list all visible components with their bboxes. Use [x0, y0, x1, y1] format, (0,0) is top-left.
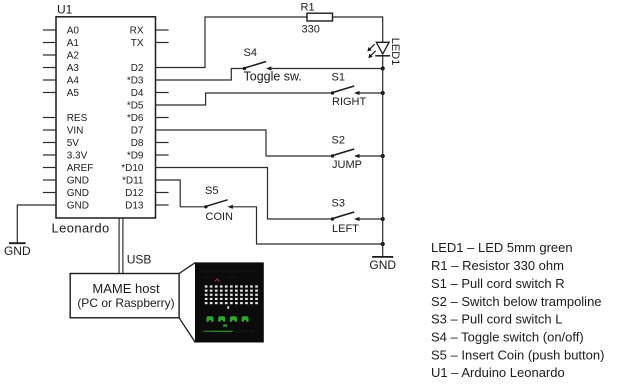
svg-text:A4: A4	[67, 76, 80, 87]
svg-text:0000: 0000	[226, 275, 236, 280]
pin A5 stub	[44, 92, 57, 94]
svg-text:COIN: COIN	[206, 211, 234, 223]
svg-text:A0: A0	[67, 26, 80, 37]
pin VIN stub	[44, 129, 57, 131]
pin 5V stub	[44, 142, 57, 144]
pin A2 stub	[44, 54, 57, 56]
wire LED cathode to node A	[382, 56, 384, 69]
pin A4 stub	[44, 79, 57, 81]
pin A0 stub	[44, 29, 57, 31]
pin 3.3V stub	[44, 154, 57, 156]
MAME host box	[70, 274, 179, 318]
game screen red ufo mark	[215, 279, 220, 281]
svg-text:TX: TX	[131, 38, 144, 49]
svg-text:GND: GND	[67, 176, 89, 187]
svg-text:S1: S1	[332, 71, 345, 83]
svg-text:GND: GND	[67, 201, 89, 212]
svg-text:A5: A5	[67, 88, 80, 99]
svg-text:330: 330	[302, 24, 320, 36]
game screen bunker 1	[207, 316, 214, 322]
svg-text:D7: D7	[131, 126, 144, 137]
switch S2	[331, 149, 360, 158]
switch S4 (toggle)	[243, 62, 272, 71]
svg-text:*D10: *D10	[121, 163, 144, 174]
svg-text:AREF: AREF	[67, 163, 94, 174]
wire GND3 pin to ground	[17, 205, 56, 243]
svg-text:A2: A2	[67, 51, 80, 62]
svg-text:S3: S3	[332, 197, 345, 209]
callout wedge bottom line	[179, 318, 195, 342]
wire top rail left of R1	[205, 16, 307, 18]
game screen bunker 4	[242, 316, 249, 322]
junction S2/bus	[381, 154, 385, 158]
svg-text:D2: D2	[131, 63, 144, 74]
wire top rail right of R1 down to LED anode	[333, 17, 383, 42]
svg-text:S4 – Toggle switch (on/off): S4 – Toggle switch (on/off)	[431, 330, 584, 345]
svg-text:RES: RES	[67, 113, 88, 124]
wire S5 to bus bottom	[233, 207, 383, 244]
pin A3 stub	[44, 67, 57, 69]
pin GND2 stub	[44, 192, 57, 194]
switch S5	[204, 200, 233, 209]
LED1 cathode bar	[376, 55, 389, 57]
pin TX stub	[156, 42, 169, 44]
svg-text:S4: S4	[244, 47, 257, 59]
svg-text:Toggle sw.: Toggle sw.	[244, 69, 302, 83]
wire D11 to switch S5	[156, 180, 206, 207]
junction S3/bus	[381, 217, 385, 221]
pin D13 stub	[156, 204, 169, 206]
svg-text:U1 – Arduino Leonardo: U1 – Arduino Leonardo	[431, 365, 565, 380]
svg-text:GND: GND	[369, 258, 396, 272]
game screen player cannon	[223, 325, 227, 327]
svg-text:D13: D13	[125, 201, 144, 212]
pin GND1 stub	[44, 179, 57, 181]
svg-text:S3 – Pull cord switch L: S3 – Pull cord switch L	[431, 312, 563, 327]
svg-text:S2: S2	[332, 134, 345, 146]
svg-text:3 010: 3 010	[201, 329, 214, 334]
switch S1	[331, 86, 360, 95]
svg-text:D8: D8	[131, 138, 144, 149]
resistor R1	[307, 13, 333, 21]
svg-text:3.3V: 3.3V	[67, 151, 88, 162]
svg-text:*D5: *D5	[127, 101, 144, 112]
svg-text:*D9: *D9	[127, 151, 144, 162]
game screen bunker 3	[230, 316, 237, 322]
wire S2 to bus	[360, 155, 383, 157]
wire D2 to top rail	[156, 17, 206, 68]
svg-text:S1 – Pull cord switch R: S1 – Pull cord switch R	[431, 276, 565, 291]
svg-text:RX: RX	[130, 26, 144, 37]
svg-text:U1: U1	[57, 2, 73, 16]
junction node A (LED cathode / S4)	[381, 66, 385, 70]
wire S3 to bus	[360, 218, 383, 220]
svg-text:A1: A1	[67, 38, 80, 49]
svg-text:S2 – Switch below trampoline: S2 – Switch below trampoline	[431, 294, 602, 309]
callout wedge top line	[179, 263, 195, 274]
LED LED1 triangle	[376, 42, 389, 54]
wire D7 to switch S2	[156, 130, 333, 156]
game screen background	[195, 262, 264, 342]
junction S1/bus	[381, 91, 385, 95]
wire S4 to node A	[272, 68, 383, 70]
svg-text:*D11: *D11	[122, 176, 144, 187]
pin D6 stub	[156, 117, 169, 119]
svg-text:MAME host: MAME host	[92, 281, 160, 296]
svg-text:LED1: LED1	[389, 38, 401, 66]
game screen alien rows	[205, 285, 258, 287]
game screen bunker 2	[218, 316, 225, 322]
svg-text:R1 – Resistor 330 ohm: R1 – Resistor 330 ohm	[431, 258, 564, 273]
pin D12 stub	[156, 192, 169, 194]
pin D4 stub	[156, 92, 169, 94]
svg-text:Leonardo: Leonardo	[52, 221, 110, 236]
pin A1 stub	[44, 42, 57, 44]
svg-text:USB: USB	[127, 253, 152, 267]
game screen ground line	[204, 331, 233, 332]
svg-text:S5 – Insert Coin (push button): S5 – Insert Coin (push button)	[431, 347, 604, 362]
svg-text:JUMP: JUMP	[332, 159, 362, 171]
pin D8 stub	[156, 142, 169, 144]
LED1 emission arrow upper	[369, 45, 374, 50]
game screen player shot	[227, 306, 229, 309]
svg-text:D12: D12	[125, 188, 144, 199]
svg-text:*D3: *D3	[127, 76, 144, 87]
pin AREF stub	[44, 167, 57, 169]
svg-text:SCORE<1> HI-SCORE SCORE<2>: SCORE<1> HI-SCORE SCORE<2>	[202, 269, 258, 274]
wire D10 to switch S3	[156, 168, 333, 220]
svg-text:D4: D4	[131, 88, 144, 99]
svg-text:S5: S5	[205, 185, 218, 197]
svg-text:GND: GND	[67, 188, 89, 199]
svg-text:VIN: VIN	[67, 126, 84, 137]
ground symbol right	[373, 256, 392, 258]
pin RX stub	[156, 29, 169, 31]
op-amp U1 (Arduino Leonardo IC body)	[56, 17, 156, 218]
svg-text:*D6: *D6	[127, 113, 144, 124]
svg-text:(PC or Raspberry): (PC or Raspberry)	[77, 296, 174, 310]
svg-text:A3: A3	[67, 63, 80, 74]
wire right bus vertical	[382, 69, 384, 257]
ground symbol left	[10, 242, 25, 244]
junction S5 return/bus	[381, 242, 385, 246]
USB cable double line	[119, 218, 123, 274]
pin D9 stub	[156, 154, 169, 156]
svg-text:LED1 – LED 5mm green: LED1 – LED 5mm green	[431, 240, 573, 255]
wire D5 to switch S1	[156, 93, 333, 105]
svg-text:5V: 5V	[67, 138, 80, 149]
wire D3 to switch S4	[156, 69, 244, 81]
LED1 emission arrow lower	[370, 51, 375, 56]
svg-text:LEFT: LEFT	[332, 223, 359, 235]
svg-text:GND: GND	[4, 244, 31, 258]
switch S3	[331, 212, 360, 221]
svg-text:RIGHT: RIGHT	[332, 96, 367, 108]
svg-text:CREDIT 00: CREDIT 00	[234, 329, 255, 334]
pin RES stub	[44, 117, 57, 119]
wire S1 to bus	[360, 92, 383, 94]
svg-text:R1: R1	[301, 2, 315, 14]
